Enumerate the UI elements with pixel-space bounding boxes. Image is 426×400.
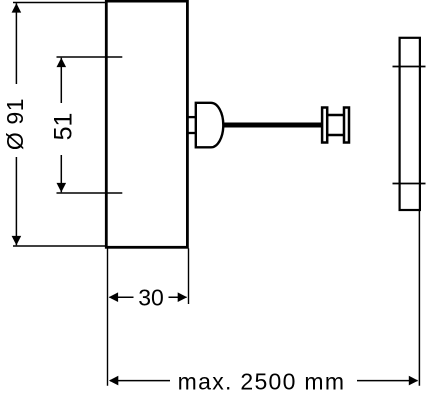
dim max 2500 line right segment <box>357 380 418 382</box>
housing body (cylinder side view) <box>106 1 187 247</box>
end hook left flange <box>322 108 327 143</box>
dim max 2500 right extension line <box>418 211 420 386</box>
end hook barrel top line <box>328 114 345 117</box>
end hook barrel fill <box>328 109 344 141</box>
dim 51 line upper segment <box>60 58 62 103</box>
svg-text:max. 2500 mm: max. 2500 mm <box>178 369 346 395</box>
svg-text:Ø 91: Ø 91 <box>2 98 28 150</box>
mounting tab bottom line <box>187 132 196 134</box>
svg-text:30: 30 <box>138 285 164 311</box>
dim max 2500 arrow right <box>409 376 418 386</box>
end hook right flange <box>344 108 349 143</box>
dim 51 top extension line <box>57 56 123 58</box>
mounting tab top line <box>187 116 196 118</box>
dim Ø91 line lower segment <box>15 157 17 245</box>
svg-text:51: 51 <box>50 113 78 141</box>
wall plate (opposite bracket) <box>400 38 420 210</box>
dim 30 arrow left <box>109 292 118 302</box>
dim Ø91 arrow up <box>12 3 22 12</box>
dim Ø91 top extension line <box>13 2 106 4</box>
wall plate lower screw line <box>393 183 426 185</box>
dim 51 line lower segment <box>60 155 62 192</box>
dim max 2500 line left segment <box>110 380 170 382</box>
dim 51 arrow down <box>57 183 67 192</box>
pull knob (D-shaped) <box>196 103 223 148</box>
dim 30 line right segment <box>169 296 187 298</box>
cord (tape) <box>219 123 322 128</box>
dim 51 arrow up <box>57 58 67 67</box>
end hook barrel bottom line <box>328 134 345 137</box>
dim Ø91 arrow down <box>12 236 22 245</box>
dim 30 arrow right <box>178 292 187 302</box>
dim Ø91 line upper segment <box>15 3 17 84</box>
wall plate upper screw line <box>393 66 426 68</box>
dim max 2500 arrow left <box>109 376 118 386</box>
dim 30 left extension line (shared with max 2500) <box>107 248 109 385</box>
dim 30 right extension line <box>188 248 190 304</box>
dim Ø91 bottom extension line <box>13 245 106 247</box>
dim 30 line left segment <box>110 296 134 298</box>
dim 51 bottom extension line <box>57 192 123 194</box>
